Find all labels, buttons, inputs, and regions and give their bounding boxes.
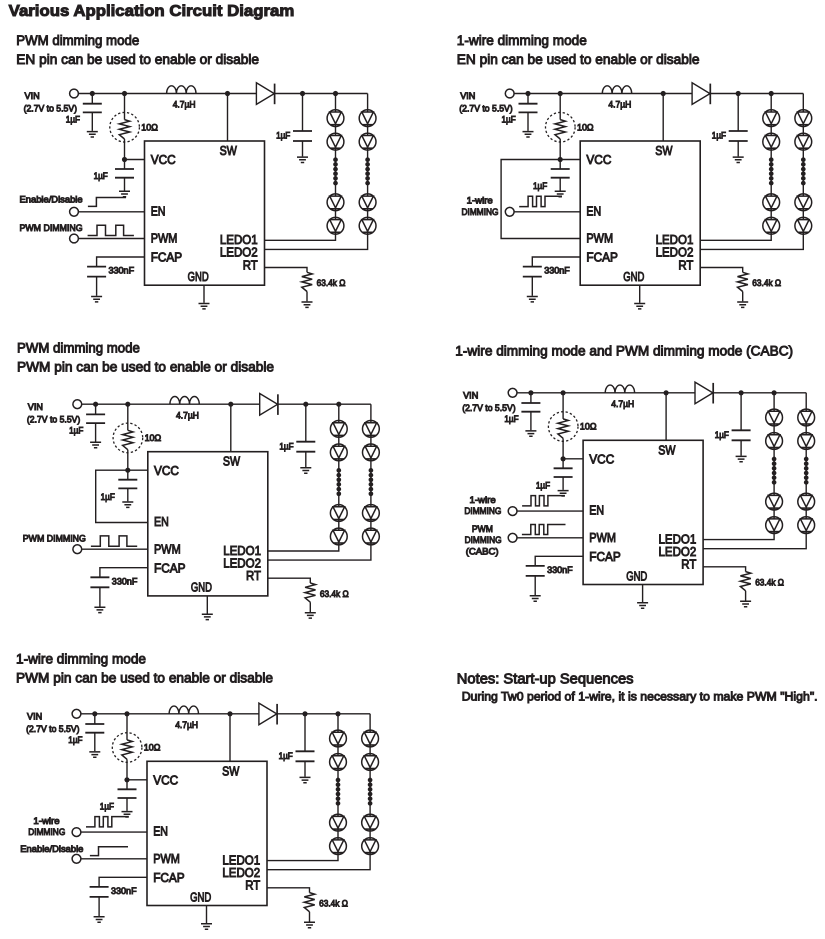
diode D1 (695, 382, 713, 404)
LED string 2 D2 (798, 433, 815, 450)
dots (more LEDs) string 2 (801, 157, 806, 185)
LED string 2 D2 (362, 754, 379, 771)
svg-text:PWM dimming mode: PWM dimming mode (16, 33, 139, 49)
wire FCAP (97, 257, 145, 267)
LED string 2 D1 (362, 730, 379, 747)
svg-text:FCAP: FCAP (153, 870, 185, 885)
wire LED string 1 (267, 714, 338, 861)
svg-text:PWM dimming mode: PWM dimming mode (17, 340, 140, 356)
svg-text:(2.7V to 5.5V): (2.7V to 5.5V) (459, 104, 512, 114)
svg-text:Various Application Circuit Di: Various Application Circuit Diagram (9, 3, 295, 20)
waveform enable step (EN) (88, 198, 126, 207)
terminal 1-wire DIMMING (505, 207, 514, 216)
capacitor C-vcc 1uF (124, 160, 126, 170)
node output (736, 91, 741, 96)
node: C-in junction (93, 402, 98, 407)
wire EN (81, 831, 147, 833)
svg-text:1µF: 1µF (66, 115, 81, 125)
resistor R 10-ohm in dashed circle (559, 94, 561, 120)
dots (more LEDs) string 1 (333, 157, 338, 185)
capacitor C-vcc 1uF (127, 470, 129, 480)
svg-text:SW: SW (222, 763, 240, 778)
svg-text:VIN: VIN (460, 91, 475, 101)
ground (IC GND) (637, 603, 648, 608)
svg-text:GND: GND (191, 580, 212, 595)
LED string 1 D4 (330, 528, 347, 545)
dots (more LEDs) string 2 (368, 778, 373, 806)
ground (IC GND) (201, 924, 212, 929)
svg-text:1µF: 1µF (279, 751, 294, 761)
svg-text:1µF: 1µF (276, 131, 291, 141)
inductor L 4.7uH (170, 397, 199, 405)
svg-text:During Tw0 period of 1-wire, i: During Tw0 period of 1-wire, it is neces… (462, 690, 818, 704)
node SW (227, 711, 232, 716)
svg-text:10Ω: 10Ω (141, 122, 158, 132)
dots (more LEDs) string 1 (336, 778, 341, 806)
ground (C-vcc) (122, 502, 133, 507)
svg-text:EN pin can be used to enable o: EN pin can be used to enable or disable (457, 52, 700, 68)
terminal VIN (circuit 3) (73, 400, 82, 409)
LED string 1 D4 (763, 217, 780, 234)
wire RT (703, 567, 746, 572)
svg-text:EN: EN (153, 824, 168, 839)
ground (330nF) (530, 596, 541, 601)
diode D1 (692, 83, 710, 105)
wire SW (665, 393, 667, 441)
ground (C-vcc) (558, 491, 569, 496)
wire LED string 2 (700, 94, 803, 250)
svg-text:RT: RT (678, 257, 693, 272)
wire PWM (517, 537, 583, 539)
node VCC (122, 157, 127, 162)
terminal VIN (circuit 1) (70, 89, 79, 98)
wire RT (265, 268, 308, 273)
svg-text:PWM: PWM (151, 231, 178, 246)
svg-text:PWM DIMMING: PWM DIMMING (23, 534, 86, 544)
svg-text:RT: RT (243, 257, 258, 272)
svg-text:PWM: PWM (589, 530, 616, 545)
svg-text:VIN: VIN (27, 712, 42, 722)
svg-text:1-wire dimming mode: 1-wire dimming mode (16, 652, 146, 668)
LED string 1 D3 (327, 194, 344, 211)
ground (330nF) (527, 297, 538, 302)
wire LED string 1 (703, 393, 774, 540)
wire SW (662, 94, 664, 142)
svg-text:10Ω: 10Ω (580, 422, 597, 432)
wire EN (514, 211, 580, 213)
node: 10-ohm junction (558, 91, 563, 96)
LED string 1 D2 (763, 133, 780, 150)
inductor L 4.7uH (167, 86, 196, 94)
LED string 2 D1 (363, 421, 380, 438)
wire input rail (514, 93, 692, 95)
terminal 1-wire DIMMING (72, 828, 81, 837)
svg-text:1-wire: 1-wire (33, 816, 59, 826)
wire EN (517, 510, 583, 512)
svg-text:EN: EN (586, 203, 601, 218)
waveform PWM CABC pulses (522, 525, 566, 535)
wire FCAP (100, 568, 148, 578)
svg-text:4.7µH: 4.7µH (611, 399, 634, 409)
svg-text:1µF: 1µF (504, 414, 519, 424)
svg-text:1µF: 1µF (94, 171, 109, 181)
svg-text:VCC: VCC (153, 773, 178, 788)
wire GND (206, 596, 208, 614)
wire FCAP (535, 556, 583, 566)
node LED column 1 (336, 402, 341, 407)
node LED column 1 (335, 711, 340, 716)
svg-text:EN: EN (589, 503, 604, 518)
wire GND (642, 585, 644, 603)
svg-text:1µF: 1µF (101, 492, 116, 502)
capacitor C-fcap 330nF (87, 267, 106, 277)
ground (330nF) (94, 917, 105, 922)
svg-text:4.7µH: 4.7µH (176, 410, 199, 420)
ground (C-vcc) (122, 812, 133, 817)
svg-text:RT: RT (246, 568, 261, 583)
LED string 1 D3 (763, 194, 780, 211)
capacitor C-out 1uF (302, 94, 304, 132)
svg-text:10Ω: 10Ω (144, 743, 161, 753)
LED string 1 D1 (330, 730, 347, 747)
ground (RT resistor) (305, 613, 316, 618)
ground (C-in) (89, 752, 100, 757)
capacitor C-out 1uF (304, 714, 306, 752)
dots (more LEDs) string 2 (365, 157, 370, 185)
svg-text:4.7µH: 4.7µH (175, 720, 198, 730)
svg-text:1µF: 1µF (536, 481, 551, 491)
wire PWM (82, 548, 148, 550)
wire LED string 2 (703, 393, 806, 549)
svg-text:1µF: 1µF (502, 115, 517, 125)
node: C-in junction (90, 91, 95, 96)
LED string 1 D4 (330, 838, 347, 855)
capacitor C-in 1uF (95, 404, 97, 414)
LED string 1 D3 (766, 493, 783, 510)
IC U1 (580, 141, 700, 285)
node output (300, 91, 305, 96)
svg-text:(CABC): (CABC) (466, 546, 499, 556)
LED string 1 D1 (327, 110, 344, 127)
wire FCAP (99, 877, 147, 887)
ground (C-out) (736, 456, 747, 461)
diode D1 (259, 703, 277, 725)
capacitor C-out 1uF (740, 393, 742, 431)
svg-text:4.7µH: 4.7µH (608, 100, 631, 110)
svg-text:1µF: 1µF (533, 181, 548, 191)
ground (RT resistor) (304, 922, 315, 927)
ground (RT resistor) (740, 601, 751, 606)
node VCC (561, 456, 566, 461)
svg-text:(2.7V to 5.5V): (2.7V to 5.5V) (27, 414, 80, 424)
diode D1 (256, 83, 274, 105)
wire rail after diode (274, 93, 367, 95)
svg-text:VCC: VCC (154, 463, 179, 478)
ground (C-out) (300, 468, 311, 473)
svg-text:10Ω: 10Ω (577, 122, 594, 132)
ground (330nF) (94, 607, 105, 612)
inductor L 4.7uH (602, 86, 631, 94)
svg-text:Enable/Disable: Enable/Disable (20, 195, 83, 205)
node output (739, 390, 744, 395)
svg-text:63.4k Ω: 63.4k Ω (752, 278, 781, 288)
svg-text:Enable/Disable: Enable/Disable (20, 844, 83, 854)
wire FCAP (532, 257, 580, 267)
node: 10-ohm junction (122, 91, 127, 96)
LED string 1 D4 (766, 517, 783, 534)
wire rail after diode (278, 403, 371, 405)
svg-text:(2.7V to 5.5V): (2.7V to 5.5V) (24, 104, 77, 114)
svg-text:PWM DIMMING: PWM DIMMING (20, 223, 83, 233)
svg-text:1µF: 1µF (712, 131, 727, 141)
capacitor C-fcap 330nF (90, 887, 109, 897)
svg-text:FCAP: FCAP (154, 560, 186, 575)
node output (303, 402, 308, 407)
wire VCC (560, 159, 580, 161)
svg-text:330nF: 330nF (547, 565, 573, 575)
LED string 1 D2 (330, 444, 347, 461)
resistor R 63.4k (304, 893, 314, 912)
LED string 2 D4 (363, 528, 380, 545)
svg-text:FCAP: FCAP (151, 250, 183, 265)
node LED column 1 (772, 390, 777, 395)
ground (C-in) (523, 132, 534, 137)
wire input rail (79, 93, 257, 95)
LED string 1 D1 (763, 110, 780, 127)
wire input rail (517, 392, 695, 394)
waveform PWM square (PWM) (91, 536, 137, 546)
wire RT (268, 578, 311, 583)
inductor L 4.7uH (605, 385, 634, 393)
LED string 1 D3 (330, 814, 347, 831)
wire LED string 2 (267, 714, 370, 870)
IC U1 (145, 141, 265, 285)
svg-text:FCAP: FCAP (586, 250, 618, 265)
node: C-in junction (92, 711, 97, 716)
svg-text:330nF: 330nF (111, 886, 137, 896)
svg-text:4.7µH: 4.7µH (173, 100, 196, 110)
wire LED string 1 (265, 94, 336, 241)
node VCC (558, 157, 563, 162)
resistor R 63.4k (738, 272, 748, 291)
svg-text:VCC: VCC (151, 152, 176, 167)
ground (C-in) (90, 442, 101, 447)
capacitor C-in 1uF (91, 94, 93, 104)
resistor R 63.4k (740, 572, 750, 591)
node LED column 1 (769, 91, 774, 96)
svg-text:(2.7V to 5.5V): (2.7V to 5.5V) (26, 724, 79, 734)
dots (more LEDs) string 1 (772, 457, 777, 485)
svg-text:1µF: 1µF (69, 425, 84, 435)
svg-text:330nF: 330nF (109, 266, 135, 276)
svg-text:VCC: VCC (586, 152, 611, 167)
svg-text:PWM pin can be used to enable: PWM pin can be used to enable or disable (16, 671, 273, 687)
terminal PWM DIMMING (73, 545, 82, 554)
LED string 2 D1 (795, 110, 812, 127)
wire rail after diode (277, 713, 370, 715)
node VCC (124, 777, 129, 782)
svg-text:1-wire dimming mode: 1-wire dimming mode (457, 33, 587, 49)
node VCC (125, 468, 130, 473)
capacitor C-in 1uF (94, 714, 96, 724)
wire EN (79, 211, 145, 213)
LED string 2 D1 (798, 409, 815, 426)
wire VCC (125, 159, 145, 161)
LED string 2 D4 (795, 217, 812, 234)
resistor R 10-ohm in dashed circle (126, 714, 128, 740)
wire RT (700, 268, 743, 273)
svg-text:PWM: PWM (153, 851, 180, 866)
wire input rail (81, 713, 259, 715)
wire RT (267, 888, 310, 893)
terminal VIN (circuit 4) (508, 388, 517, 397)
wire GND (639, 285, 641, 303)
svg-text:VIN: VIN (463, 391, 478, 401)
resistor R 63.4k (302, 272, 312, 291)
wire LED string 2 (265, 94, 368, 250)
node SW (664, 390, 669, 395)
svg-text:1µF: 1µF (68, 735, 83, 745)
svg-text:(2.7V to 5.5V): (2.7V to 5.5V) (462, 403, 515, 413)
wire SW (227, 94, 229, 142)
terminal VIN (circuit 2) (505, 89, 514, 98)
node: 10-ohm junction (561, 390, 566, 395)
capacitor C-fcap 330nF (523, 267, 542, 277)
svg-text:330nF: 330nF (544, 266, 570, 276)
LED string 2 D2 (795, 133, 812, 150)
ground (RT resistor) (737, 302, 748, 307)
wire LED string 1 (700, 94, 771, 241)
svg-text:1µF: 1µF (100, 802, 115, 812)
wire rail after diode (710, 93, 803, 95)
node: 10-ohm junction (124, 711, 129, 716)
terminal Enable/Disable (70, 207, 79, 216)
waveform enable step (PWM) (90, 847, 128, 856)
svg-text:SW: SW (658, 442, 676, 457)
svg-text:VIN: VIN (28, 402, 43, 412)
LED string 1 D4 (327, 217, 344, 234)
capacitor C-vcc 1uF (126, 780, 128, 790)
ground (C-out) (297, 157, 308, 162)
svg-text:63.4k Ω: 63.4k Ω (319, 898, 348, 908)
LED string 1 D3 (330, 505, 347, 522)
wire PWM (81, 858, 147, 860)
svg-text:1-wire: 1-wire (467, 196, 493, 206)
ground (C-vcc) (555, 191, 566, 196)
svg-text:63.4k Ω: 63.4k Ω (320, 589, 349, 599)
LED string 2 D4 (362, 838, 379, 855)
capacitor C-vcc 1uF (562, 459, 564, 469)
svg-text:1µF: 1µF (715, 430, 730, 440)
LED string 2 D3 (798, 493, 815, 510)
ground (RT resistor) (302, 302, 313, 307)
LED string 2 D3 (359, 194, 376, 211)
svg-text:VCC: VCC (589, 452, 614, 467)
LED string 1 D1 (766, 409, 783, 426)
LED string 2 D3 (795, 194, 812, 211)
ground (C-in) (87, 132, 98, 137)
node: C-in junction (525, 91, 530, 96)
terminal Enable/Disable (72, 854, 81, 863)
node SW (661, 91, 666, 96)
svg-text:GND: GND (190, 889, 211, 904)
terminal PWM DIMMING (70, 234, 79, 243)
resistor R 10-ohm in dashed circle (127, 404, 129, 430)
LED string 2 D3 (362, 814, 379, 831)
LED string 2 D4 (359, 217, 376, 234)
terminal 1-wire DIMMING (508, 507, 517, 516)
svg-text:10Ω: 10Ω (145, 433, 162, 443)
wire rail after diode (713, 392, 806, 394)
svg-text:PWM: PWM (154, 541, 181, 556)
node SW (225, 91, 230, 96)
svg-text:PWM: PWM (472, 524, 493, 534)
inductor L 4.7uH (169, 706, 198, 714)
waveform 1-wire pulses (EN) (522, 496, 565, 506)
resistor R 10-ohm in dashed circle (562, 393, 564, 419)
svg-text:63.4k Ω: 63.4k Ω (317, 278, 346, 288)
waveform PWM square (PWM) (88, 225, 134, 235)
IC U1 (583, 440, 703, 584)
ground (C-vcc) (119, 191, 130, 196)
wire loop VCC to PWM (501, 160, 580, 239)
svg-text:DIMMING: DIMMING (464, 506, 501, 516)
LED string 2 D2 (363, 444, 380, 461)
wire LED string 2 (268, 404, 371, 560)
LED string 2 D1 (359, 110, 376, 127)
node output (302, 711, 307, 716)
svg-text:DIMMING: DIMMING (462, 207, 499, 217)
IC U1 (147, 761, 267, 905)
svg-text:FCAP: FCAP (589, 549, 621, 564)
wire VCC (127, 779, 147, 781)
waveform 1-wire pulses (EN) (519, 196, 562, 206)
ground (330nF) (91, 297, 102, 302)
svg-text:RT: RT (245, 878, 260, 893)
LED string 2 D2 (359, 133, 376, 150)
wire SW (229, 714, 231, 762)
svg-text:1-wire: 1-wire (470, 495, 496, 505)
waveform 1-wire pulses (EN) (86, 817, 129, 827)
wire PWM (79, 238, 145, 240)
wire LED string 1 (268, 404, 339, 551)
svg-text:PWM: PWM (586, 231, 613, 246)
svg-text:SW: SW (223, 454, 241, 469)
dots (more LEDs) string 2 (804, 457, 809, 485)
terminal PWM DIMMING (CABC) (508, 533, 517, 542)
ground (IC GND) (199, 304, 210, 309)
ground (IC GND) (202, 614, 213, 619)
ground (C-in) (525, 431, 536, 436)
dots (more LEDs) string 2 (369, 468, 374, 496)
wire VCC (563, 458, 583, 460)
svg-text:GND: GND (626, 568, 647, 583)
svg-text:63.4k Ω: 63.4k Ω (755, 577, 784, 587)
node LED column 1 (333, 91, 338, 96)
wire GND (206, 906, 208, 924)
ground (C-out) (733, 157, 744, 162)
IC U1 (148, 452, 268, 596)
svg-text:DIMMING: DIMMING (465, 535, 502, 545)
diode D1 (260, 394, 278, 416)
svg-text:330nF: 330nF (112, 576, 138, 586)
svg-text:GND: GND (188, 269, 209, 284)
node SW (228, 402, 233, 407)
capacitor C-in 1uF (530, 393, 532, 403)
wire SW (230, 404, 232, 452)
capacitor C-out 1uF (305, 404, 307, 442)
LED string 2 D4 (798, 517, 815, 534)
